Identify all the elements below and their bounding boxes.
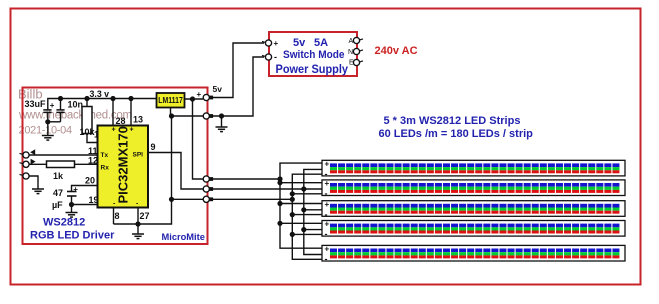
pin 19 wire: [72, 204, 98, 206]
terminal console gnd: [23, 173, 29, 179]
svg-text:5A: 5A: [314, 37, 328, 49]
driver module box: [23, 88, 208, 245]
resistor 10k: [82, 107, 92, 134]
svg-text:33uF: 33uF: [25, 99, 47, 109]
terminal psu E: [353, 59, 359, 65]
pin 20 wire: [72, 186, 98, 192]
junction on 3.3v rail at pin13: [128, 96, 133, 101]
junction pin27 gnd: [135, 221, 140, 226]
wire gnd rail bottom: [114, 199, 172, 224]
wire gnd vertical: [171, 116, 173, 199]
junction 5v: [190, 96, 195, 101]
LED strip 5: [322, 245, 625, 264]
svg-text:5v: 5v: [213, 84, 223, 94]
wire gnd bus: [211, 198, 292, 200]
junction data bus: [301, 186, 306, 191]
LED strip 4: [322, 220, 625, 239]
svg-text:240v AC: 240v AC: [375, 45, 418, 57]
terminal strip 5v out: [203, 176, 209, 182]
svg-text:+: +: [130, 127, 134, 134]
junction caps gnd: [45, 119, 50, 124]
wire data distribution vertical: [304, 169, 322, 254]
svg-text:+: +: [73, 185, 78, 194]
svg-text:+: +: [325, 245, 330, 254]
wire 3.3v rail: [48, 99, 157, 110]
wire Rx console: [29, 163, 47, 165]
wire gnd to terminal: [172, 115, 204, 117]
svg-text:-: -: [325, 169, 328, 179]
pin 13: [130, 99, 132, 126]
terminal strip gnd out: [203, 196, 209, 202]
wire 5v tap strip 4: [280, 222, 322, 224]
wire 5v down to strips feed: [193, 99, 204, 179]
svg-text:+: +: [325, 160, 330, 169]
svg-text:LM1117: LM1117: [158, 96, 183, 105]
LED strip 1: [322, 160, 625, 179]
svg-text:28: 28: [116, 116, 126, 126]
svg-text:Tx: Tx: [101, 152, 109, 159]
svg-text:-: -: [325, 229, 328, 239]
LED strip 2: [322, 179, 625, 198]
ground vcap: [66, 213, 78, 218]
svg-text:SPI: SPI: [133, 152, 144, 159]
arrow console out: [30, 149, 35, 155]
junction gnd out: [169, 197, 174, 202]
wire to ground: [71, 205, 73, 213]
svg-text:+: +: [197, 90, 202, 99]
capacitor 10n: [56, 99, 64, 122]
svg-text:10n: 10n: [68, 100, 84, 110]
svg-text:5 * 3m WS2812 LED Strips: 5 * 3m WS2812 LED Strips: [384, 115, 521, 127]
terminal console Tx: [23, 152, 29, 158]
svg-text:E: E: [349, 60, 354, 67]
svg-text:RGB LED Driver: RGB LED Driver: [30, 230, 115, 242]
junction on 3.3v rail at 10k: [84, 96, 89, 101]
svg-text:µF: µF: [52, 200, 63, 210]
svg-text:12: 12: [88, 155, 98, 165]
terminal psu -: [265, 54, 271, 60]
svg-text:27: 27: [140, 211, 150, 221]
wire 5v bus: [211, 178, 280, 180]
wire LM1117 out to 5v terminal: [185, 98, 204, 100]
junction gnd psu: [219, 113, 224, 118]
svg-text:+: +: [50, 101, 55, 110]
wire caps to ground: [48, 122, 61, 135]
svg-text:8: 8: [115, 211, 120, 221]
junction on 3.3v rail at 10n: [58, 96, 63, 101]
wire data bus: [211, 188, 322, 190]
resistor 1k: [47, 161, 75, 168]
wire 5v tap strip 2: [280, 182, 322, 184]
pin 8: [113, 208, 115, 225]
svg-text:+: +: [325, 179, 330, 188]
svg-text:MicroMite: MicroMite: [162, 232, 205, 242]
terminal gnd: [203, 113, 209, 119]
wire LM1117 gnd: [171, 108, 172, 117]
svg-text:60 LEDs /m = 180 LEDs / strip: 60 LEDs /m = 180 LEDs / strip: [379, 128, 534, 140]
svg-text:Switch Mode: Switch Mode: [283, 49, 345, 61]
terminal 5v: [203, 94, 209, 100]
junction gnd bus: [290, 197, 295, 202]
svg-text:-: -: [325, 189, 328, 199]
junction 5v bus: [277, 176, 282, 181]
ground: [42, 136, 54, 141]
svg-text:+: +: [325, 220, 330, 229]
svg-text:PIC32MX170: PIC32MX170: [116, 126, 131, 203]
terminal strip data out: [203, 186, 209, 192]
svg-text:Rx: Rx: [101, 164, 110, 171]
capacitor 47uF: [67, 192, 77, 205]
svg-text:9: 9: [151, 142, 156, 152]
wire stub to ground: [137, 224, 139, 234]
svg-text:20: 20: [85, 175, 95, 185]
terminal psu A: [353, 37, 359, 43]
svg-text:Power Supply: Power Supply: [276, 64, 349, 76]
capacitor 33uF: [43, 110, 51, 122]
svg-text:+: +: [325, 200, 330, 209]
wire 3.3v to 10k: [86, 99, 88, 107]
svg-text:-: -: [274, 52, 277, 62]
ground psu neg: [216, 127, 228, 132]
wire gnd distribution vertical: [292, 174, 322, 259]
svg-text:+: +: [112, 127, 116, 134]
wire gnd to PSU: [210, 57, 264, 116]
power supply box: [269, 32, 357, 76]
regulator LM1117: [157, 93, 185, 108]
wire gnd tap strip 2: [292, 193, 322, 195]
pin 27: [137, 208, 139, 225]
wire gnd tap strip 3: [292, 214, 322, 216]
wire 5v tap strip 3: [280, 203, 322, 205]
svg-text:WS2812: WS2812: [43, 217, 85, 229]
LED strip 3: [322, 200, 625, 219]
svg-text:47: 47: [53, 188, 63, 198]
wire stub ground: [221, 116, 223, 127]
wire gnd tap strip 4: [292, 233, 322, 235]
svg-text:5v: 5v: [293, 37, 306, 49]
wire SPI pin9: [148, 153, 203, 190]
wire data tap strip 4: [304, 229, 322, 231]
svg-text:2021-10-04: 2021-10-04: [19, 125, 72, 137]
svg-text:1k: 1k: [53, 171, 64, 181]
terminal console Rx: [23, 161, 29, 167]
wire 10k to pin1: [87, 134, 98, 143]
wire 5v to PSU: [210, 43, 264, 98]
svg-text:13: 13: [133, 115, 143, 125]
wire data tap strip 3: [304, 209, 322, 211]
wire 5v distribution vertical: [280, 163, 322, 248]
junction on 3.3v rail at pin28: [110, 96, 115, 101]
pin 28: [112, 99, 114, 126]
svg-text:-: -: [325, 209, 328, 219]
wire gnd to out terminal: [172, 198, 204, 200]
svg-text:-: -: [325, 254, 328, 264]
wire Tx console: [29, 154, 98, 156]
svg-text:3.3 v: 3.3 v: [90, 89, 110, 99]
terminal psu +: [265, 40, 271, 46]
svg-text:N: N: [348, 49, 353, 56]
op chip PIC32MX170 U1: [98, 126, 149, 208]
arrow console in: [31, 159, 36, 165]
terminal psu N: [353, 48, 359, 54]
svg-text:+: +: [274, 39, 279, 48]
ground chip: [132, 234, 144, 239]
wire console gnd: [29, 176, 38, 189]
svg-text:A: A: [349, 38, 354, 45]
junction pin19/cap: [69, 202, 74, 207]
ground console: [32, 189, 44, 194]
junction LM1117 gnd: [169, 113, 174, 118]
svg-text:19: 19: [89, 195, 99, 205]
